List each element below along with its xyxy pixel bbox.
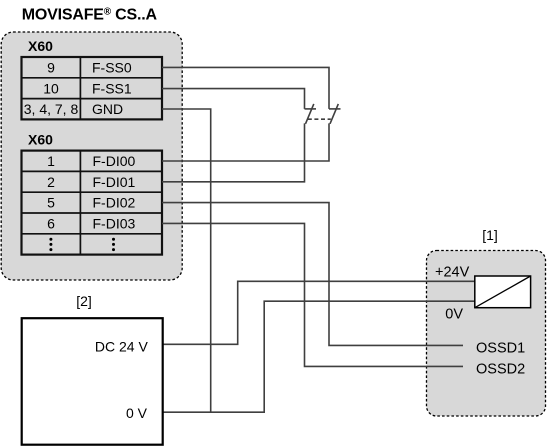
power supply box [2] (22, 318, 163, 445)
wire switch channel 1 to F-DI00 (162, 123, 329, 161)
pin 10 / F-SS1 (43, 80, 132, 96)
pin 6 / F-DI03 (47, 216, 135, 232)
svg-text:F-SS1: F-SS1 (92, 80, 132, 96)
svg-text:F-DI02: F-DI02 (93, 195, 136, 211)
svg-text:1: 1 (47, 153, 55, 169)
wire F-SS0 to switch contact channel 1 (162, 67, 329, 109)
pin 5 / F-DI02 (47, 195, 135, 211)
wire F-SS1 to switch contact channel 2 (162, 89, 305, 109)
svg-text:MOVISAFE® CS..A: MOVISAFE® CS..A (22, 7, 158, 24)
svg-text:0 V: 0 V (126, 405, 148, 421)
svg-text:X60: X60 (28, 38, 53, 54)
terminal block X60 lower (pins 1, 2, 5, 6, ...) (22, 151, 163, 255)
mechanical link between contacts (dashed) (308, 118, 331, 120)
svg-text:OSSD1: OSSD1 (476, 340, 525, 356)
terminal block X60 upper (pins 9, 10, GND) (22, 57, 163, 119)
wire F-DI03 to OSSD2 (162, 223, 463, 366)
wire F-DI02 to OSSD1 (162, 203, 463, 346)
ellipsis dots (column 1) (49, 238, 52, 251)
svg-text:2: 2 (47, 174, 55, 190)
svg-text:GND: GND (92, 101, 123, 117)
pin 2 / F-DI01 (47, 174, 135, 190)
pin 1 / F-DI00 (47, 153, 135, 169)
svg-text:X60: X60 (28, 132, 53, 148)
svg-text:F-DI01: F-DI01 (93, 174, 136, 190)
switch contact channel 1 (NC) (329, 104, 341, 124)
switch contact channel 2 (NC) (305, 104, 317, 124)
svg-text:F-DI00: F-DI00 (93, 153, 136, 169)
svg-text:F-DI03: F-DI03 (93, 216, 136, 232)
svg-text:F-SS0: F-SS0 (92, 60, 132, 76)
svg-text:5: 5 (47, 195, 55, 211)
svg-text:0V: 0V (445, 307, 463, 323)
svg-text:OSSD2: OSSD2 (476, 361, 525, 377)
MOVISAFE CS..A device block (dashed rounded) (1, 32, 182, 280)
ellipsis dots (column 2) (112, 238, 115, 251)
svg-text:3, 4, 7, 8: 3, 4, 7, 8 (24, 101, 79, 117)
isolator box with diagonal (475, 276, 531, 308)
svg-text:+24V: +24V (435, 264, 470, 280)
pins 3,4,7,8 / GND (24, 101, 123, 117)
svg-text:10: 10 (43, 80, 59, 96)
wire GND to 0V rail (162, 109, 211, 412)
wire switch channel 2 to F-DI01 (162, 123, 305, 181)
pin 9 / F-SS0 (47, 60, 132, 76)
wire 0 V to 0V (163, 301, 475, 412)
svg-text:9: 9 (47, 60, 55, 76)
svg-text:6: 6 (47, 216, 55, 232)
svg-text:[1]: [1] (482, 227, 498, 243)
svg-text:[2]: [2] (76, 293, 92, 309)
monitoring device block [1] (dashed rounded) (427, 251, 546, 417)
wire DC 24 V to +24V (163, 281, 475, 344)
svg-text:DC 24 V: DC 24 V (95, 338, 149, 354)
